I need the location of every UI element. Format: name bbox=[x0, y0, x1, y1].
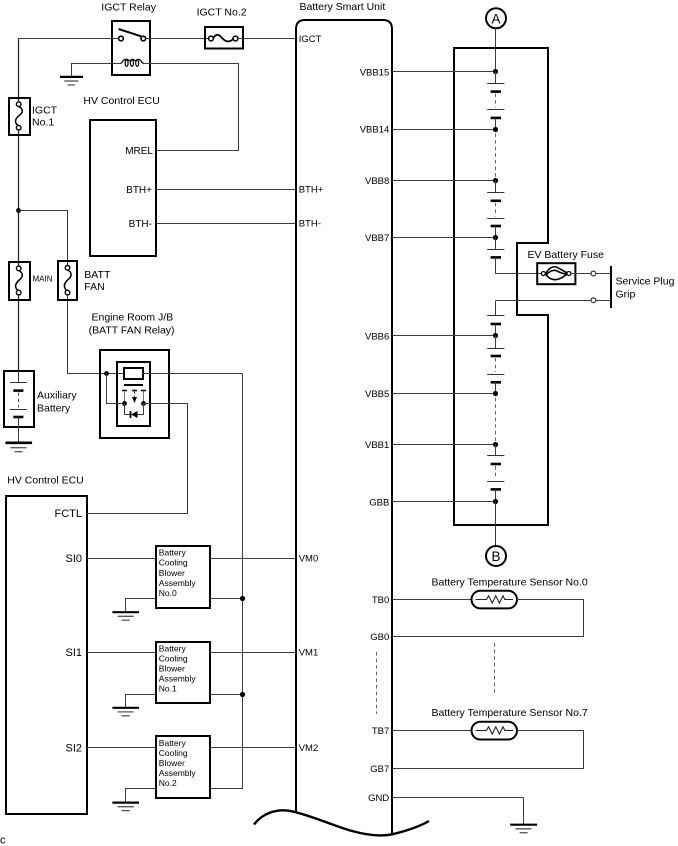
svg-text:VBB15: VBB15 bbox=[360, 67, 390, 78]
battery cell (VBB1-GBB upper) bbox=[487, 445, 504, 465]
svg-text:B: B bbox=[491, 549, 500, 564]
node: junction dot on left vertical bbox=[16, 208, 21, 213]
svg-text:SI0: SI0 bbox=[65, 553, 82, 565]
wire: sensor No.0 return loop to GB0 bbox=[392, 600, 584, 637]
svg-text:Battery Temperature Sensor No.: Battery Temperature Sensor No.7 bbox=[432, 707, 588, 719]
svg-text:Cooling: Cooling bbox=[159, 748, 188, 758]
wire: VBB6 tap bbox=[392, 333, 498, 338]
node: dot at relay vertical (blower No.0) bbox=[240, 596, 245, 601]
wire: relay coil to ground bbox=[72, 64, 113, 78]
diode loop under contacts bbox=[125, 404, 144, 419]
svg-text:TB0: TB0 bbox=[372, 595, 389, 606]
fuse: IGCT No.1 bbox=[9, 98, 30, 135]
pin SI1 label bbox=[65, 647, 82, 659]
dashed cell continuation VBB14-VBB8 bbox=[495, 134, 497, 178]
wire: IGCT No.1 fuse to junction, down to MAIN fuse bbox=[18, 130, 20, 266]
pin VM2 label (BSU) bbox=[299, 743, 319, 754]
battery: Auxiliary Battery box bbox=[4, 371, 34, 427]
IC: HV Control ECU upper box bbox=[90, 120, 156, 256]
pin TB0 label bbox=[372, 595, 389, 606]
svg-text:TB7: TB7 bbox=[372, 726, 389, 737]
wire: SI0 to blower No.0 bbox=[87, 558, 156, 560]
pin GND label bbox=[368, 793, 389, 804]
svg-text:MREL: MREL bbox=[125, 146, 153, 157]
pin VM0 label (BSU) bbox=[299, 553, 319, 564]
label: Auxiliary Battery bbox=[37, 389, 77, 414]
HV battery pack box with service-plug notch bbox=[454, 48, 548, 525]
pin FCTL label bbox=[55, 508, 83, 520]
svg-text:BTH+: BTH+ bbox=[126, 185, 152, 196]
pin IGCT label (BSU) bbox=[299, 34, 322, 45]
wire: VBB1 tap bbox=[392, 442, 498, 447]
svg-text:SI1: SI1 bbox=[65, 647, 82, 659]
battery cell (VBB8-VBB7 upper) bbox=[487, 181, 504, 201]
svg-text:Battery: Battery bbox=[159, 643, 187, 653]
ground: blower No.2 bbox=[112, 803, 139, 811]
relay coil rectangle bbox=[124, 368, 143, 379]
svg-text:A: A bbox=[491, 11, 500, 26]
svg-text:Battery Temperature Sensor No.: Battery Temperature Sensor No.0 bbox=[432, 576, 588, 588]
pin BTH+ label (BSU) bbox=[299, 184, 324, 195]
wire: TB0 to sensor No.0 bbox=[392, 599, 472, 601]
pin VBB14 label bbox=[360, 125, 390, 136]
svg-text:VM1: VM1 bbox=[299, 648, 319, 659]
pin GB0 label bbox=[370, 632, 389, 643]
terminal circle: service plug bottom bbox=[591, 298, 596, 303]
svg-text:VM0: VM0 bbox=[299, 553, 319, 564]
svg-text:(BATT FAN Relay): (BATT FAN Relay) bbox=[89, 325, 175, 337]
wire: VBB15 tap bbox=[392, 69, 498, 74]
svg-text:Assembly: Assembly bbox=[159, 768, 197, 778]
pin SI2 label bbox=[65, 743, 82, 755]
label: Engine Room J/B (BATT FAN Relay) bbox=[89, 312, 175, 337]
label: Battery Temperature Sensor No.0 bbox=[432, 576, 588, 588]
dashed continuation VBB5-VBB1 bbox=[495, 398, 497, 441]
node: coil row junction dot bbox=[104, 371, 109, 376]
ground: auxiliary battery bbox=[6, 443, 33, 452]
wire: GND to chassis ground bbox=[392, 798, 524, 825]
battery cell (VBB15-VBB14 upper) bbox=[487, 72, 504, 92]
svg-text:BTH-: BTH- bbox=[299, 219, 321, 230]
wire: blower No.0 to relay vertical bbox=[210, 598, 243, 600]
svg-text:VBB6: VBB6 bbox=[365, 331, 389, 342]
svg-text:Assembly: Assembly bbox=[159, 674, 197, 684]
label: figure letter c bbox=[0, 835, 6, 846]
wire: left vertical from top wire down to fuse IGCT No.1 bbox=[18, 39, 20, 103]
ground: IGCT relay coil bbox=[60, 77, 83, 85]
wire: sensor No.7 return loop to GB7 bbox=[392, 731, 584, 769]
wire: BTH+ to Battery Smart Unit bbox=[156, 189, 296, 191]
label: Service Plug Grip bbox=[616, 275, 675, 300]
node: dot at relay vertical (blower No.1) bbox=[240, 692, 245, 697]
battery cell (VBB15-VBB14 lower) bbox=[487, 110, 504, 130]
ground: blower No.0 bbox=[112, 612, 139, 620]
svg-text:Blower: Blower bbox=[159, 758, 185, 768]
wire: battery feed top-left horizontal to IGCT relay bbox=[19, 38, 113, 40]
wire: GBB tap bbox=[392, 499, 498, 504]
svg-text:GND: GND bbox=[368, 793, 389, 804]
wire: blower No.1 to relay vertical bbox=[210, 694, 243, 696]
svg-text:FCTL: FCTL bbox=[55, 508, 83, 520]
relay: BATT FAN relay inner box bbox=[117, 362, 150, 426]
svg-text:VBB7: VBB7 bbox=[365, 233, 389, 244]
svg-text:Assembly: Assembly bbox=[159, 578, 197, 588]
svg-text:GBB: GBB bbox=[369, 497, 389, 508]
label: Battery Temperature Sensor No.7 bbox=[432, 707, 588, 719]
dashed cell continuation bbox=[495, 94, 497, 108]
motor: Battery Cooling Blower Assembly No.1 bbox=[156, 642, 210, 703]
svg-text:VBB1: VBB1 bbox=[365, 440, 389, 451]
label: IGCT Relay bbox=[101, 2, 156, 14]
connector A circle bbox=[486, 8, 506, 28]
thermistor: Battery Temperature Sensor No.7 bbox=[472, 722, 518, 740]
label: BATT FAN bbox=[84, 269, 111, 293]
wire: MAIN fuse to Auxiliary Battery bbox=[18, 295, 20, 371]
battery cell (VBB1-GBB lower) bbox=[487, 482, 504, 502]
wire: connector A down to battery string bbox=[495, 28, 497, 71]
relay core line bbox=[124, 384, 143, 386]
svg-text:HV Control ECU: HV Control ECU bbox=[83, 95, 159, 107]
label: HV Control ECU (lower) bbox=[7, 475, 83, 487]
relay contact fingers bbox=[122, 391, 146, 404]
svg-text:No.2: No.2 bbox=[159, 778, 177, 788]
svg-text:c: c bbox=[0, 835, 6, 846]
svg-text:Battery: Battery bbox=[37, 403, 71, 415]
svg-text:Battery: Battery bbox=[159, 548, 187, 558]
IC: HV Control ECU lower box bbox=[6, 496, 87, 814]
battery cell (above EV fuse) bbox=[487, 238, 504, 258]
pin BTH- label (BSU) bbox=[299, 219, 321, 230]
battery cell (VBB8-VBB7 lower) bbox=[487, 219, 504, 238]
pin BTH- label bbox=[129, 219, 152, 230]
battery cell (below EV fuse) bbox=[487, 316, 504, 336]
relay coil (4 loops) bbox=[112, 59, 150, 66]
thermistor: Battery Temperature Sensor No.0 bbox=[472, 591, 518, 609]
svg-text:GB7: GB7 bbox=[370, 764, 389, 775]
fuse: BATT FAN bbox=[58, 261, 77, 300]
wire: blower No.1 ground leg bbox=[126, 695, 157, 709]
dashed cell continuation bbox=[495, 203, 497, 217]
wire: IGCT No.2 fuse to Battery Smart Unit IGCT pin bbox=[238, 38, 296, 40]
junction box: Engine Room J/B outer box bbox=[100, 350, 169, 438]
wire: BTH- to Battery Smart Unit bbox=[156, 223, 296, 225]
dashed continuation between sensors bbox=[494, 643, 496, 693]
wire: BATT FAN fuse down and right into J/B relay coil bbox=[68, 295, 126, 374]
svg-text:Service Plug: Service Plug bbox=[616, 275, 675, 287]
dashed continuation inside BSU between GB0 and TB7 bbox=[376, 652, 378, 714]
svg-text:Auxiliary: Auxiliary bbox=[37, 389, 77, 401]
svg-text:No.1: No.1 bbox=[159, 684, 177, 694]
motor: Battery Cooling Blower Assembly No.2 bbox=[156, 736, 210, 798]
svg-text:Cooling: Cooling bbox=[159, 558, 188, 568]
pin VBB1 label bbox=[365, 440, 389, 451]
battery cell (VBB6-VBB5 upper) bbox=[487, 336, 504, 357]
svg-text:Battery: Battery bbox=[159, 738, 187, 748]
svg-text:No.0: No.0 bbox=[159, 588, 177, 598]
svg-text:HV Control ECU: HV Control ECU bbox=[7, 475, 83, 487]
svg-text:MAIN: MAIN bbox=[33, 275, 53, 284]
fuse: EV Battery Fuse bbox=[537, 263, 575, 284]
ground: Battery Smart Unit GND bbox=[510, 825, 537, 833]
dashed cell continuation bbox=[495, 358, 497, 372]
wire: VBB14 tap bbox=[392, 127, 498, 132]
pin VBB8 label bbox=[365, 176, 389, 187]
wire: EV fuse to service plug terminal bbox=[571, 273, 591, 275]
wire: battery to EV fuse bbox=[496, 257, 542, 273]
wire: service plug bar to battery (bottom return) bbox=[496, 301, 611, 316]
terminal circle: service plug top bbox=[591, 271, 596, 276]
pin GBB label bbox=[369, 497, 389, 508]
svg-text:VBB8: VBB8 bbox=[365, 176, 389, 187]
svg-text:BTH-: BTH- bbox=[129, 219, 152, 230]
fuse: MAIN bbox=[9, 262, 30, 300]
svg-text:VBB5: VBB5 bbox=[365, 389, 389, 400]
label: EV Battery Fuse bbox=[528, 249, 605, 261]
wire: relay output vertical down to blowers bbox=[210, 374, 243, 789]
wire: FCTL to relay contact vertical bbox=[87, 513, 188, 515]
fuse: IGCT No.2 bbox=[205, 27, 243, 49]
label: IGCT No.2 bbox=[197, 7, 247, 19]
wire: relay coil through-wire to right side bbox=[143, 373, 243, 375]
svg-text:SI2: SI2 bbox=[65, 743, 82, 755]
wire: TB7 to sensor No.7 bbox=[392, 730, 472, 732]
svg-text:IGCT Relay: IGCT Relay bbox=[101, 2, 156, 14]
battery cell (VBB6-VBB5 lower) bbox=[487, 375, 504, 394]
node: contact dots bbox=[122, 401, 146, 406]
wire: terminal to service plug bar (top) bbox=[596, 273, 610, 275]
wire: junction drop to contact row bbox=[107, 374, 125, 404]
label: MAIN bbox=[33, 275, 53, 284]
svg-text:No.1: No.1 bbox=[32, 117, 54, 129]
wire: blower No.2 output to BSU VM2 bbox=[210, 747, 296, 749]
relay contact circles and blade bbox=[112, 29, 150, 41]
auxiliary battery plates bbox=[10, 371, 27, 443]
wire: blower No.0 ground leg bbox=[126, 599, 157, 613]
svg-text:Blower: Blower bbox=[159, 664, 185, 674]
svg-text:VBB14: VBB14 bbox=[360, 125, 390, 136]
svg-text:Battery Smart Unit: Battery Smart Unit bbox=[300, 1, 386, 13]
wire: MREL to IGCT relay coil (via vertical) bbox=[150, 64, 239, 151]
pin VBB15 label bbox=[360, 67, 390, 78]
svg-text:BATT: BATT bbox=[84, 269, 111, 281]
service plug grip bar bbox=[610, 266, 612, 308]
motor: Battery Cooling Blower Assembly No.0 bbox=[156, 546, 210, 608]
svg-text:BTH+: BTH+ bbox=[299, 184, 324, 195]
wire: SI2 to blower No.2 bbox=[87, 747, 156, 749]
label: IGCT No.1 bbox=[32, 105, 58, 129]
svg-text:Engine Room J/B: Engine Room J/B bbox=[92, 312, 174, 324]
svg-text:VM2: VM2 bbox=[299, 743, 319, 754]
wire: GBB down to connector B bbox=[495, 502, 497, 547]
pin GB7 label bbox=[370, 764, 389, 775]
pin TB7 label bbox=[372, 726, 389, 737]
svg-text:EV Battery Fuse: EV Battery Fuse bbox=[528, 249, 605, 261]
dashed cell continuation bbox=[495, 466, 497, 479]
wire: VBB7 tap bbox=[392, 235, 498, 240]
svg-text:IGCT: IGCT bbox=[299, 34, 322, 45]
label: Battery Smart Unit bbox=[300, 1, 386, 13]
svg-text:FAN: FAN bbox=[84, 281, 104, 293]
wire: VBB8 tap bbox=[392, 178, 498, 183]
pin BTH+ label bbox=[126, 185, 152, 196]
wire: relay switch to IGCT No.2 fuse bbox=[150, 38, 209, 40]
svg-text:Cooling: Cooling bbox=[159, 653, 188, 663]
wire: VBB5 tap bbox=[392, 391, 498, 396]
pin SI0 label bbox=[65, 553, 82, 565]
wire: blower No.1 output to BSU VM1 bbox=[210, 652, 296, 654]
break wave at bottom of Battery Smart Unit bbox=[254, 810, 429, 835]
svg-text:Blower: Blower bbox=[159, 568, 185, 578]
svg-text:IGCT: IGCT bbox=[32, 105, 58, 117]
label: HV Control ECU (upper) bbox=[83, 95, 159, 107]
IC: Battery Smart Unit box (rounded, open bottom at break) bbox=[296, 20, 392, 836]
pin VM1 label (BSU) bbox=[299, 648, 319, 659]
wire: contact output to FCTL vertical bbox=[144, 404, 188, 514]
pin VBB7 label bbox=[365, 233, 389, 244]
pin VBB5 label bbox=[365, 389, 389, 400]
connector B circle bbox=[486, 546, 506, 566]
wire: junction right and down to BATT FAN fuse bbox=[19, 211, 68, 266]
pin MREL label bbox=[125, 146, 153, 157]
ground: blower No.1 bbox=[112, 708, 139, 716]
relay: IGCT Relay box bbox=[112, 21, 150, 75]
svg-text:GB0: GB0 bbox=[370, 632, 389, 643]
pin VBB6 label bbox=[365, 331, 389, 342]
wire: blower No.2 ground leg bbox=[126, 789, 157, 803]
wire: SI1 to blower No.1 bbox=[87, 652, 156, 654]
svg-text:IGCT No.2: IGCT No.2 bbox=[197, 7, 247, 19]
wire: blower No.0 output to BSU VM0 bbox=[210, 558, 296, 560]
svg-text:Grip: Grip bbox=[616, 288, 636, 300]
